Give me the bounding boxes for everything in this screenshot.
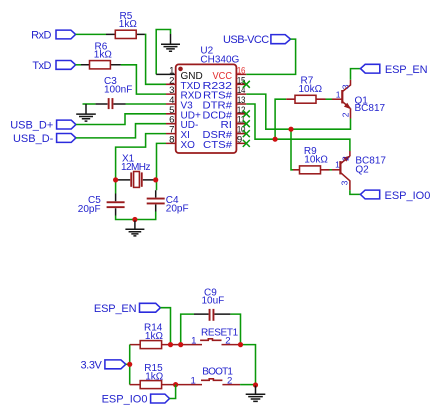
svg-text:BC817: BC817 [355,103,386,114]
svg-text:ESP_EN: ESP_EN [385,64,428,76]
svg-text:9: 9 [237,134,242,145]
svg-text:3.3V: 3.3V [80,359,102,371]
junction ESP_IO0/R15 [173,382,178,387]
resistor R5 [106,11,145,39]
junction ground node [132,217,137,222]
flag USB_D- [13,133,76,145]
wire XI pin7 to crystal left [116,134,166,194]
wire C3 right to U2 pin4 V3 [126,103,167,105]
wire C9 right branch [230,314,240,345]
svg-text:CH340G: CH340G [200,54,239,65]
svg-text:TxD: TxD [32,60,51,72]
wire RxD to R5 [76,33,106,35]
svg-text:RESET1: RESET1 [201,327,239,338]
svg-text:20pF: 20pF [166,204,189,215]
wire 3.3V rail [129,345,131,385]
switch RESET1 [191,327,240,346]
transistor Q2 [332,151,386,190]
junction ground node bottom [253,382,258,387]
wire XO pin8 to crystal right [157,143,167,190]
wire DTR# pin13 to Q2 emitter [246,104,350,151]
wire R9 to Q2 base [330,169,333,171]
svg-text:10kΩ: 10kΩ [304,154,328,165]
wire node to R7 [275,99,286,139]
wire pin1 stub (black) [156,73,176,75]
svg-text:RxD: RxD [31,30,51,42]
svg-text:CTS#: CTS# [203,140,232,151]
svg-text:1: 1 [191,336,196,347]
wire Q2 collector to ESP_IO0 [350,190,361,194]
ground (top, near U2 pin1) [161,34,180,51]
wire TxD to R6 [76,64,81,66]
wire C4 bottom [135,212,156,220]
svg-text:Q2: Q2 [355,165,369,176]
flag RxD [31,30,75,42]
resistor R14 [130,323,202,349]
svg-text:10kΩ: 10kΩ [299,84,323,95]
capacitor C9 [194,287,230,320]
flag ESP_IO0 (top) [360,190,430,202]
flag TxD [32,60,75,72]
wire R6 to U2 pin3 RXD [121,65,166,94]
flag USB-VCC [223,34,290,46]
svg-text:2: 2 [340,156,350,161]
ground (under C5/C4) [125,221,144,236]
wire C3 left to ground [83,103,96,105]
wire pin1 GND to ground [156,30,170,75]
svg-text:2: 2 [341,112,351,117]
crystal X1 [118,154,154,188]
svg-text:1kΩ: 1kΩ [94,50,113,61]
wire USB_D+ to U2 pin5 UD+ [76,114,166,125]
wire R5 to U2 pin2 TXD [145,34,166,84]
svg-text:3: 3 [340,180,350,185]
flag ESP_EN (top) [361,64,428,76]
flag 3.3V [80,359,125,371]
wire Q1 collector to ESP_EN [351,69,361,80]
wire ESP_EN down to reset node [160,308,170,345]
svg-text:1: 1 [190,376,195,387]
wire node to R9 [291,129,293,170]
svg-text:20pF: 20pF [78,204,101,215]
junction 3.3V [127,362,132,367]
svg-text:ESP_EN: ESP_EN [94,303,137,315]
svg-text:USB_D+: USB_D+ [10,120,53,132]
flag USB_D+ [10,120,76,132]
capacitor C3 [95,76,132,109]
wire RESET1 pin2 to ground [241,345,256,385]
junction RTS/R9 [288,127,293,132]
capacitor C5 [78,194,125,216]
flag ESP_EN (bottom) [94,303,160,315]
wire BOOT1 pin2 to ground [240,384,255,386]
svg-text:8: 8 [169,134,174,145]
IC U2 CH340G [166,45,250,153]
junction RESET1 pin2 [238,342,243,347]
wire RTS# pin14 to Q1 emitter [246,94,350,129]
svg-text:ESP_IO0: ESP_IO0 [102,393,148,405]
svg-text:3: 3 [341,84,351,89]
ground (bottom right) [246,386,266,402]
svg-text:XO: XO [181,140,196,151]
svg-text:10uF: 10uF [202,296,225,307]
wire 3.3V to rail [126,363,130,365]
right pin stubs pins16-9 [236,74,246,143]
junction C9/R14 [178,342,183,347]
wire R7 to Q1 base [326,98,333,100]
svg-text:USB_D-: USB_D- [13,133,54,145]
junction XI/C5 [113,177,118,182]
junction XO/C4 [153,177,158,182]
svg-text:1: 1 [336,89,341,99]
wire USB_D- to U2 pin6 UD- [76,124,166,138]
resistor R7 [286,76,325,104]
svg-text:1kΩ: 1kΩ [145,331,164,342]
wire C9 left branch [181,314,194,345]
no-connect X pins 15,12,11,10,9 [243,81,250,88]
resistor R15 [130,363,202,388]
wire USB-VCC to pin16 VCC [246,39,295,74]
switch BOOT1 [190,366,240,386]
svg-text:100nF: 100nF [104,85,132,96]
flag ESP_IO0 (bottom) [102,393,170,405]
svg-text:1kΩ: 1kΩ [145,371,164,382]
transistor Q1 [332,80,386,119]
resistor R9 [293,146,330,174]
svg-text:1kΩ: 1kΩ [119,19,138,30]
svg-text:USB-VCC: USB-VCC [223,34,269,46]
junction ESP_EN/R14 [168,342,173,347]
svg-text:ESP_IO0: ESP_IO0 [385,190,431,202]
left pin stubs pins2-8 [166,84,176,143]
ground (under C3) [76,104,96,121]
junction DTR/R7 [273,137,278,142]
capacitor C4 [147,190,189,214]
wire C5 bottom [116,216,135,220]
wire ESP_IO0 to R15 node [170,385,176,399]
resistor R6 [81,42,121,69]
